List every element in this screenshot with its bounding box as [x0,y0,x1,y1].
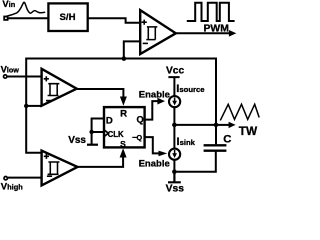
U1 hysteresis symbol [146,27,157,40]
wire Vin to S/H [8,17,48,19]
op-amp U2 low comparator [42,69,77,106]
svg-text:PWM: PWM [204,23,229,34]
svg-text:CLK: CLK [108,130,124,139]
arrowhead enable Isink [159,151,168,157]
U3 plus sign [44,154,49,159]
arrowhead enable Isource [157,98,165,105]
current source Isource [169,96,180,107]
svg-text:Vhigh: Vhigh [1,181,23,192]
terminal Vlow [3,75,6,78]
Vss supply stub [168,172,181,183]
pin CLK wedge [104,130,108,137]
capacitor C bottom plate [204,150,227,152]
TW triangle waveform [220,104,259,120]
wire S/H to comparator U1 + input [88,18,141,23]
pin Qbar [132,133,142,142]
block S/H [48,3,87,31]
wire TW net: left rail, top rail, right rail [26,59,216,153]
svg-text:Vss: Vss [68,135,86,146]
Vss tie for D and CLK [68,119,104,147]
wire U1 output to PWM [176,32,230,34]
op-amp U1 PWM comparator [140,10,176,54]
junction comp2 minus tap [24,104,28,108]
U3 minus sign [47,175,52,177]
wire node to TW rail [174,124,216,126]
U2 minus sign [46,100,51,102]
junction TW rail [214,123,219,128]
svg-text:Vin: Vin [2,0,15,9]
terminal Vhigh [4,177,7,180]
PWM pulse waveform [187,3,235,21]
svg-text:Q: Q [137,115,144,125]
svg-text:TW: TW [239,124,258,138]
wire Isink to Vss node [173,160,175,172]
svg-text:S/H: S/H [60,12,76,23]
wire capacitor bottom to Vss node [174,151,215,172]
wire junction to CLK [92,131,104,133]
svg-text:S: S [120,139,126,149]
capacitor C top plate [204,144,227,146]
terminal Vin [4,17,7,20]
junction current node [172,123,177,128]
arrowhead into R [120,97,127,106]
wire U1 minus input tap to TW rail [124,41,140,57]
flip-flop U4 box [104,107,145,147]
wire Isource to current node [173,107,175,125]
svg-text:Enable: Enable [139,89,170,100]
junction Vss node [172,169,177,174]
wire Q output to Isource enable [145,101,158,120]
arrowhead into S [120,148,127,157]
U2 hysteresis symbol [48,84,60,96]
svg-text:Vcc: Vcc [166,66,184,77]
node Vhigh label [1,181,23,192]
Vcc supply stub [168,77,179,96]
wire Vhigh to comparator U3 [8,177,42,179]
wire U2 output to flip-flop R input [77,89,124,97]
U3 hysteresis symbol [48,162,60,174]
svg-text:R: R [120,109,127,120]
Vss stub bar [87,144,98,146]
svg-text:Q: Q [137,133,143,142]
wire D to Vss stub [92,119,104,145]
svg-text:Vlow: Vlow [1,63,20,74]
junction D/CLK/Vss [89,130,93,134]
wire Vlow to comparator U2 [7,76,41,78]
op-amp U3 high comparator [42,151,78,186]
junction on TW rail [122,56,127,61]
U2 plus sign [44,76,49,81]
wire Qbar output to Isink enable [145,137,159,153]
svg-text:Isource: Isource [176,83,205,95]
wire U3 output to flip-flop S input [78,157,124,167]
svg-text:D: D [106,115,113,126]
svg-text:Vss: Vss [166,184,185,194]
svg-text:C: C [223,134,231,146]
U1 minus sign [143,42,148,44]
wire comp2 minus input [26,105,41,107]
U1 plus sign [142,20,147,25]
TW output arrow [216,124,229,126]
wire node to Isink [173,125,175,148]
svg-text:Enable: Enable [139,158,170,169]
PWM output arrowhead [229,30,236,37]
node Vin label [2,0,15,9]
node Vlow label [1,63,20,74]
current source Isink [169,149,180,160]
svg-text:Isink: Isink [177,136,196,148]
Vin input waveform [7,2,46,16]
